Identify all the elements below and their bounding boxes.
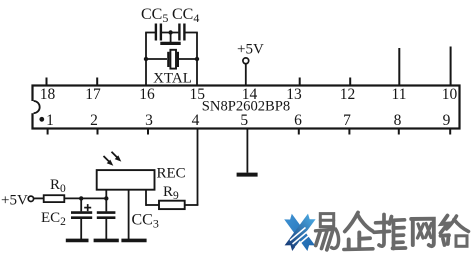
ground (below EC2) — [66, 239, 89, 243]
wire REC middle pin to ground (CC3 branch) — [128, 190, 130, 239]
wire pin 5 to ground — [246, 129, 248, 173]
pin 7 stub — [348, 129, 350, 135]
svg-text:REC: REC — [157, 166, 186, 182]
svg-text:CC3: CC3 — [132, 212, 159, 231]
node +5V terminal (top) — [243, 58, 249, 64]
ground (between CC5 and CC4) — [160, 33, 180, 44]
wire cap row left — [145, 32, 155, 34]
pin 3 stub — [147, 129, 149, 135]
node junction crystal left — [144, 57, 148, 61]
pin 6 stub — [298, 129, 300, 135]
ground (below CC3 cap) — [94, 239, 119, 243]
svg-text:17: 17 — [85, 86, 101, 103]
wire R9 left — [146, 204, 159, 206]
svg-text:7: 7 — [343, 112, 351, 129]
watermark char 络 — [441, 216, 469, 247]
capacitor EC2 (electrolytic) — [71, 198, 92, 239]
IR receiver REC — [97, 170, 155, 190]
node junction CC3/REC pin — [104, 196, 108, 200]
wire R9 right — [185, 204, 199, 206]
pin 1 stub — [47, 129, 49, 135]
wire R0 to REC — [64, 197, 106, 199]
watermark char 推 — [374, 215, 406, 249]
watermark logo — [284, 214, 315, 251]
IR arrow 1 — [104, 156, 114, 166]
pin 12 stub — [349, 78, 351, 86]
crystal XTAL — [168, 50, 178, 69]
wire +5V to R0 — [34, 197, 44, 199]
svg-text:11: 11 — [392, 86, 407, 103]
svg-text:6: 6 — [294, 112, 302, 129]
IR arrow 2 — [112, 152, 122, 162]
svg-text:XTAL: XTAL — [153, 70, 192, 86]
svg-text:CC4: CC4 — [172, 6, 199, 25]
pin 11 wire — [398, 48, 400, 86]
ground (below REC middle pin) — [121, 239, 146, 243]
wire crystal right vertical (pin 15) — [196, 33, 198, 86]
svg-text:+5V: +5V — [237, 42, 264, 58]
wire pin 4 vertical — [197, 129, 199, 206]
svg-text:5: 5 — [240, 112, 248, 129]
pin 13 stub — [299, 78, 301, 86]
pin 8 stub — [398, 129, 400, 135]
pin 17 stub — [96, 78, 98, 86]
pin 2 stub — [97, 129, 99, 135]
svg-text:13: 13 — [286, 86, 302, 103]
wire crystal row left — [146, 58, 167, 60]
node junction EC2 — [79, 196, 83, 200]
svg-text:10: 10 — [442, 86, 458, 103]
svg-text:R0: R0 — [50, 177, 66, 195]
wire cap row right — [185, 32, 197, 34]
svg-text:2: 2 — [90, 112, 98, 129]
watermark char 易 — [316, 214, 339, 250]
wire REC right pin — [145, 190, 147, 206]
wire cap row mid-left — [162, 32, 178, 34]
svg-text:CC5: CC5 — [141, 6, 168, 25]
svg-text:R9: R9 — [163, 184, 179, 202]
svg-text:8: 8 — [394, 112, 402, 129]
svg-text:15: 15 — [190, 86, 206, 103]
svg-text:EC2: EC2 — [41, 210, 66, 228]
wire crystal row right — [179, 58, 197, 60]
svg-text:12: 12 — [340, 86, 356, 103]
svg-text:9: 9 — [443, 112, 451, 129]
node junction top — [168, 30, 172, 34]
svg-text:4: 4 — [192, 112, 200, 129]
node junction crystal right — [195, 57, 199, 61]
capacitor CC4 — [179, 24, 184, 41]
pin 18 stub — [46, 78, 48, 86]
watermark char 网 — [411, 219, 434, 246]
capacitor CC5 — [156, 24, 161, 41]
wire REC left pin — [105, 190, 107, 199]
pin 1 dot — [39, 117, 44, 122]
svg-text:1: 1 — [46, 112, 54, 129]
wire +5V to pin 14 — [245, 64, 247, 86]
svg-text:14: 14 — [242, 86, 258, 103]
resistor R0 — [44, 195, 65, 202]
node +5V terminal (left) — [28, 196, 33, 201]
pin 9 stub — [449, 129, 451, 135]
wire crystal left vertical (pin 16) — [145, 33, 147, 86]
capacitor CC3 — [97, 198, 116, 239]
ground (below pin 5) — [237, 173, 258, 177]
svg-text:18: 18 — [40, 86, 56, 103]
IC U1 SN8P2602BP8 body — [31, 86, 460, 129]
svg-text:16: 16 — [139, 86, 155, 103]
resistor R9 — [159, 201, 185, 209]
svg-text:+5V: +5V — [1, 192, 28, 208]
pin 10 wire — [450, 47, 452, 86]
svg-text:3: 3 — [145, 112, 153, 129]
watermark char 企 — [344, 213, 373, 250]
